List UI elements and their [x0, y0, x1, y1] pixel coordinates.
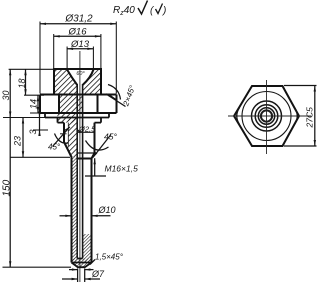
label 2x45 deg with leader: [106, 85, 126, 107]
hatching: tube right wall bottom: [83, 234, 92, 263]
surface finish note Rz40: [113, 1, 166, 18]
hex view centerlines: [228, 115, 311, 117]
dimension Ø31.2: [40, 22, 116, 94]
centerline of part: [79, 51, 81, 282]
hatching: thread left wall: [68, 118, 77, 143]
dimension 14: [37, 95, 39, 113]
dimension 3: [38, 112, 40, 137]
svg-text:(: (: [150, 6, 155, 17]
dimension 30 and 150 shared line: [9, 69, 11, 267]
hatching: collar left half: [58, 113, 78, 123]
dimension Ø10: [60, 215, 111, 217]
label 1.5x45 deg with leader: [69, 260, 95, 271]
washer collar: [45, 113, 109, 123]
svg-text:Ø7: Ø7: [91, 269, 105, 279]
dimension 18: [24, 69, 26, 95]
svg-text:45°: 45°: [104, 132, 117, 142]
svg-text:Ø16: Ø16: [68, 27, 88, 38]
svg-text:Ø13: Ø13: [70, 39, 90, 50]
svg-text:Rz40: Rz40: [113, 5, 135, 17]
dimension Ø13: [67, 47, 93, 69]
dimension Ø16: [54, 34, 101, 69]
svg-text:45°: 45°: [48, 143, 61, 152]
svg-text:3: 3: [28, 129, 38, 134]
svg-text:M16×1,5: M16×1,5: [105, 164, 139, 174]
hexagon: [234, 86, 299, 146]
hatching: taper transition: [64, 142, 77, 157]
hatching: tube tip: [72, 259, 92, 268]
corner chamfer arcs: [295, 108, 298, 125]
svg-text:Ø10: Ø10: [98, 205, 116, 215]
threaded neck outline: [64, 123, 95, 263]
svg-text:30: 30: [1, 90, 11, 100]
svg-text:): ): [162, 6, 166, 17]
dimension 27C5: [284, 86, 317, 147]
svg-text:14: 14: [29, 99, 39, 109]
svg-text:2×45°: 2×45°: [121, 83, 137, 108]
bore lines: [76, 84, 78, 259]
hatching: hex band: [59, 95, 82, 114]
hex top-right corner chamfer: [109, 95, 116, 100]
thread runout line: [77, 152, 94, 154]
hatching: boss section with countersink: [54, 69, 101, 95]
chamfer circle: [242, 92, 291, 141]
boss outline: [54, 69, 101, 95]
svg-text:150: 150: [1, 179, 12, 196]
tube bottom: [72, 259, 92, 268]
svg-text:18: 18: [17, 78, 27, 88]
dimension Ø7: [62, 269, 100, 283]
hatching: tube left wall: [72, 157, 78, 263]
left extension lines: [3, 69, 72, 267]
label M16x1.5 with leader: [85, 158, 106, 176]
circles: [252, 101, 282, 131]
svg-text:Ø31,2: Ø31,2: [64, 14, 93, 25]
svg-text:1,5×45°: 1,5×45°: [95, 253, 124, 262]
thread undercut tick: [60, 133, 67, 135]
hex front view: [40, 95, 117, 114]
svg-text:Ø2,5: Ø2,5: [78, 125, 96, 134]
label Ø2.5 with leader: [77, 129, 94, 134]
svg-text:60°: 60°: [76, 71, 85, 77]
label 45 deg left with leader: [53, 127, 70, 147]
svg-text:23: 23: [13, 136, 23, 147]
label 45 deg right with leader: [86, 135, 112, 158]
hex end view: [234, 86, 299, 146]
dimension 23: [22, 118, 24, 158]
svg-text:27C5: 27C5: [305, 107, 315, 129]
